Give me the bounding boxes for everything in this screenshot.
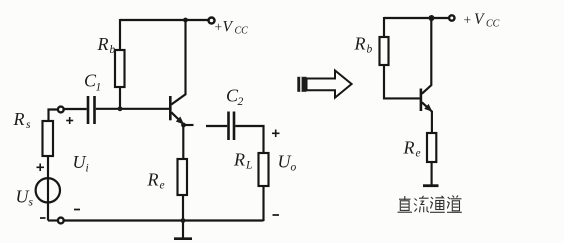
capacitor C1 plates xyxy=(87,96,90,124)
svg-text:b: b xyxy=(367,44,373,56)
wire RL bottom lead xyxy=(262,186,264,221)
svg-text:U: U xyxy=(16,187,30,207)
wire top rail left circuit xyxy=(120,19,208,21)
svg-text:V: V xyxy=(223,19,234,36)
transistor Q2 emitter xyxy=(422,102,432,111)
ground right xyxy=(423,184,439,187)
svg-text:R: R xyxy=(97,34,109,54)
node top rail junction dot right xyxy=(429,15,435,21)
svg-text:s: s xyxy=(26,119,31,131)
svg-text:+: + xyxy=(215,20,223,35)
plus sign output xyxy=(272,130,280,138)
svg-text:V: V xyxy=(474,11,485,28)
label +Vcc right xyxy=(464,11,500,30)
resistor RL xyxy=(259,153,269,186)
node base junction dot xyxy=(118,106,123,111)
transistor Q1 emitter arrowhead xyxy=(176,117,184,125)
terminal input (open circle) xyxy=(58,107,64,113)
svg-text:L: L xyxy=(245,160,252,172)
wire emitter stub right xyxy=(184,124,194,126)
terminal +Vcc right (open circle) xyxy=(449,15,454,20)
resistor Rb left xyxy=(115,50,125,87)
svg-text:2: 2 xyxy=(238,96,244,108)
svg-text:CC: CC xyxy=(486,19,500,30)
wire C2 right lead to RL xyxy=(235,126,263,153)
svg-text:R: R xyxy=(403,138,415,158)
char 直 xyxy=(398,196,413,212)
wire source bottom corner to terminal xyxy=(48,219,58,221)
svg-text:R: R xyxy=(233,150,245,170)
svg-text:R: R xyxy=(147,170,159,190)
transistor Q2 base bar xyxy=(420,89,423,112)
char 通 xyxy=(430,196,445,213)
text caption 直流通道 xyxy=(398,196,462,213)
ground left xyxy=(174,237,192,240)
wire top rail right circuit xyxy=(384,17,449,19)
svg-text:o: o xyxy=(291,162,297,174)
wire Re bottom lead xyxy=(182,195,184,238)
svg-text:R: R xyxy=(13,109,25,129)
wire Rs to source xyxy=(47,156,49,179)
wire input terminal to C1 xyxy=(64,108,87,110)
node emitter junction dot xyxy=(181,123,186,128)
wire C2 left lead xyxy=(206,125,227,127)
svg-text:s: s xyxy=(29,197,34,209)
transistor Q1 collector xyxy=(171,19,185,105)
plus sign input xyxy=(66,117,73,124)
svg-text:U: U xyxy=(278,152,292,172)
wire through source xyxy=(47,179,49,221)
char 道 xyxy=(447,196,462,213)
svg-text:b: b xyxy=(110,44,116,56)
wire bottom rail xyxy=(64,219,264,221)
wire C1 to base (base wire) xyxy=(96,108,169,110)
minus sign bottom-left xyxy=(40,217,46,219)
svg-text:R: R xyxy=(354,34,366,54)
svg-text:+: + xyxy=(464,13,472,28)
plus sign above source xyxy=(37,164,45,172)
node top rail junction dot xyxy=(183,18,188,23)
label +Vcc left xyxy=(215,19,249,37)
wire emitter down to Re right xyxy=(431,111,433,133)
transistor Q2 emitter arrowhead xyxy=(424,104,432,112)
wire Rb branch top xyxy=(119,19,121,50)
resistor Rb right xyxy=(380,37,389,65)
block arrow body outline xyxy=(307,71,352,98)
capacitor C2 plates xyxy=(227,112,230,141)
transistor Q1 base bar xyxy=(169,96,172,120)
transistor Q2 collector xyxy=(422,17,431,94)
resistor Rs xyxy=(43,121,54,156)
wire Rb bottom lead xyxy=(119,87,121,109)
svg-text:U: U xyxy=(73,152,87,172)
terminal bottom-left (open circle) xyxy=(58,218,64,224)
resistor Re right xyxy=(427,133,436,162)
transistor Q1 emitter xyxy=(171,112,183,124)
block arrow tail solid xyxy=(297,77,306,92)
terminal +Vcc left (open circle) xyxy=(209,18,215,24)
char 流 xyxy=(414,196,429,213)
block arrow tail slit xyxy=(300,77,302,92)
minus sign under Ui xyxy=(74,209,80,211)
svg-text:e: e xyxy=(416,148,421,160)
svg-text:CC: CC xyxy=(235,26,249,37)
wire emitter down to Re xyxy=(182,125,184,159)
resistor Re left xyxy=(178,159,188,195)
wire Rb branch right xyxy=(383,17,385,37)
minus sign output xyxy=(273,214,280,216)
wire Re bottom lead right xyxy=(431,162,433,185)
svg-text:e: e xyxy=(160,180,165,192)
svg-text:1: 1 xyxy=(96,82,102,94)
source Us (circle with vertical wire through) xyxy=(36,178,60,202)
wire Rb to base corner xyxy=(384,65,420,98)
svg-text:i: i xyxy=(86,163,89,175)
wire input jog to Rs xyxy=(49,110,59,122)
node bottom rail junction dot xyxy=(181,218,186,223)
